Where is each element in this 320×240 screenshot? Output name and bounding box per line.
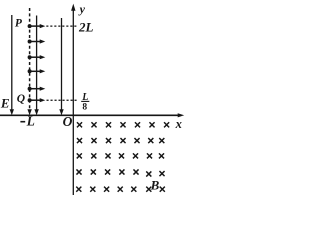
dashed line x=-L (arrow down) xyxy=(27,8,31,115)
arrow row 4 xyxy=(28,69,46,73)
svg-text:P: P xyxy=(15,17,23,29)
E-field line 1 (left, arrow down) xyxy=(10,15,14,115)
x-marks row 4 xyxy=(76,169,164,176)
svg-text:2L: 2L xyxy=(78,20,94,35)
arrow row 3 xyxy=(28,55,46,59)
-L label xyxy=(20,121,25,123)
arrow row 5 xyxy=(28,87,46,91)
svg-text:8: 8 xyxy=(82,102,87,112)
y-axis xyxy=(71,4,75,195)
svg-text:E: E xyxy=(0,95,10,110)
E-field line 3 (arrow down) xyxy=(59,18,63,115)
E-field line 2 (arrow down) xyxy=(34,16,38,116)
svg-text:B: B xyxy=(150,177,160,192)
arrow row 2 xyxy=(28,39,46,43)
point P dot and arrow xyxy=(28,24,46,28)
svg-text:L: L xyxy=(26,114,35,129)
x-marks row 2 xyxy=(77,138,164,143)
svg-text:x: x xyxy=(175,117,182,131)
svg-text:y: y xyxy=(78,2,86,16)
x-marks row 1 xyxy=(77,122,169,127)
svg-text:O: O xyxy=(63,114,73,129)
point Q dot and arrow xyxy=(28,98,46,102)
dashed guide from Q to y-axis at L/8 xyxy=(47,99,78,101)
x-marks row 3 xyxy=(77,153,164,158)
B-field region x-marks grid xyxy=(76,122,169,192)
L/8 fraction label xyxy=(81,92,89,112)
x-marks row 5 xyxy=(76,187,165,192)
dashed guide from P to y-axis at 2L xyxy=(46,25,77,27)
svg-text:Q: Q xyxy=(17,93,25,105)
x-axis xyxy=(0,113,184,117)
